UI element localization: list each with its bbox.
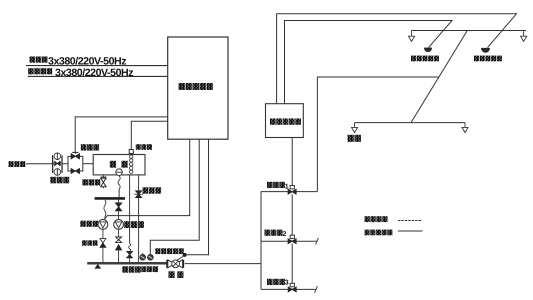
water tank 水箱 [93, 155, 145, 175]
solenoid valve label 电磁阀 [81, 144, 99, 150]
pump control cabinet label [179, 83, 213, 90]
level gauge 液位计 chain [129, 150, 133, 174]
pressure gauge 压力表 left [140, 253, 146, 260]
net main-power label 主电源 [30, 57, 48, 63]
main valve 主阀 [167, 260, 183, 268]
wire alarm to smoke detector [277, 14, 517, 104]
wire alarm to heat detector [285, 21, 453, 104]
zone valve2 label 区域阀2 [265, 230, 287, 239]
pressure sensor dot [176, 253, 186, 260]
nozzle branch bottom with sprinklers [352, 123, 469, 133]
svg-text:3x380/220V-50Hz: 3x380/220V-50Hz [55, 67, 133, 79]
test valve pipe 测试阀 [134, 175, 143, 262]
high pressure pump label 高压泵 [80, 221, 98, 227]
wire backup power line [28, 75, 168, 77]
tank outlet union [116, 169, 123, 176]
heat detector label 感温探测器 [411, 56, 439, 62]
wire main power line [26, 65, 168, 67]
heat detector 感温探测器 [424, 48, 431, 52]
node inlet label 进水管 [9, 161, 26, 167]
relief valve label 泄压阀 [122, 266, 141, 272]
jockey pump label 稳压泵 [124, 221, 144, 228]
water tank label 水 箱 [110, 161, 128, 168]
legend water pipe label 水系统管路 [365, 230, 393, 236]
smoke detector label 感烟探测器 [474, 56, 502, 62]
wire cabinet to level gauge [131, 121, 167, 149]
pipe diagonal [411, 31, 467, 123]
zone valve1 label 区域阀1 [267, 182, 289, 191]
svg-text:2: 2 [283, 231, 287, 238]
legend signal line sample [398, 220, 422, 222]
drain valve 泄水阀 [101, 175, 107, 188]
wire valve1 to valve2 [291, 194, 293, 235]
pipe loop to tank [83, 163, 93, 165]
pipe flex to pump1 [104, 200, 106, 220]
pipe filter to loop [62, 163, 68, 165]
level gauge label 液位计 [136, 144, 152, 150]
zone valve3 区域阀3 [261, 283, 317, 293]
svg-text:1: 1 [285, 183, 289, 190]
pressure gauge label 压力表 [141, 266, 158, 272]
wire valve2 to valve3 [291, 244, 293, 284]
suction header pipe [95, 197, 125, 200]
legend water pipe sample [398, 230, 423, 232]
pipe sprinkler feed [317, 77, 439, 192]
check valve 止回阀 pump1 [100, 229, 106, 262]
svg-text:3: 3 [285, 280, 289, 287]
discharge manifold pipe [87, 262, 167, 265]
high pressure pump 高压泵 [98, 220, 108, 230]
filter label 过滤器 [50, 177, 69, 184]
zone valve2 区域阀2 [261, 235, 318, 245]
filter 过滤器 symbol [53, 153, 62, 175]
pipe main to zones [185, 263, 261, 265]
pressure gauge 压力表 right [148, 254, 154, 260]
nozzle branch top with sprinklers [408, 31, 526, 42]
alarm controller box 报警控制器 [266, 104, 304, 138]
solenoid valve 电磁阀 [71, 152, 79, 158]
wire B cabinet to pressure switch [150, 139, 199, 254]
check valve label 止回阀 [82, 240, 98, 245]
manifold anchor [95, 265, 100, 269]
net main-power text [48, 55, 126, 67]
pump2 discharge valve and check valve [116, 229, 122, 262]
smoke detector 感烟探测器 [482, 48, 490, 52]
drain valve label 泄水阀 [82, 179, 100, 185]
bypass manual valve [71, 169, 79, 174]
bypass loop [68, 156, 83, 171]
pump2 suction valve [116, 200, 122, 220]
legend signal line label 电信号线 [365, 216, 388, 222]
wire cabinet to solenoid valve [75, 117, 168, 152]
wire C cabinet to pressure sensor [185, 139, 209, 255]
alarm controller label [270, 119, 301, 125]
wire A cabinet to pump motor [105, 139, 190, 219]
nozzle label 喷头 [348, 135, 361, 142]
pressure sensor label 压力传感器 [155, 248, 183, 254]
pipe zone riser left [260, 192, 262, 290]
test valve label 测试阀 [143, 187, 162, 193]
relief valve line 泄压阀 [127, 175, 133, 262]
main valve label 主阀 [169, 271, 184, 278]
wire alarm to zone valve1 [291, 138, 293, 186]
pump control cabinet box 泵组控制柜 [168, 37, 228, 139]
net backup-power text [55, 67, 133, 79]
pipe tank outlet flex [118, 176, 120, 197]
jockey pump 稳压泵 [114, 220, 124, 230]
net backup-power label 备用电源 [28, 68, 52, 74]
zone valve1 区域阀1 [261, 185, 317, 194]
zone valve3 label 区域阀3 [267, 279, 289, 287]
pipe inlet [26, 163, 53, 165]
